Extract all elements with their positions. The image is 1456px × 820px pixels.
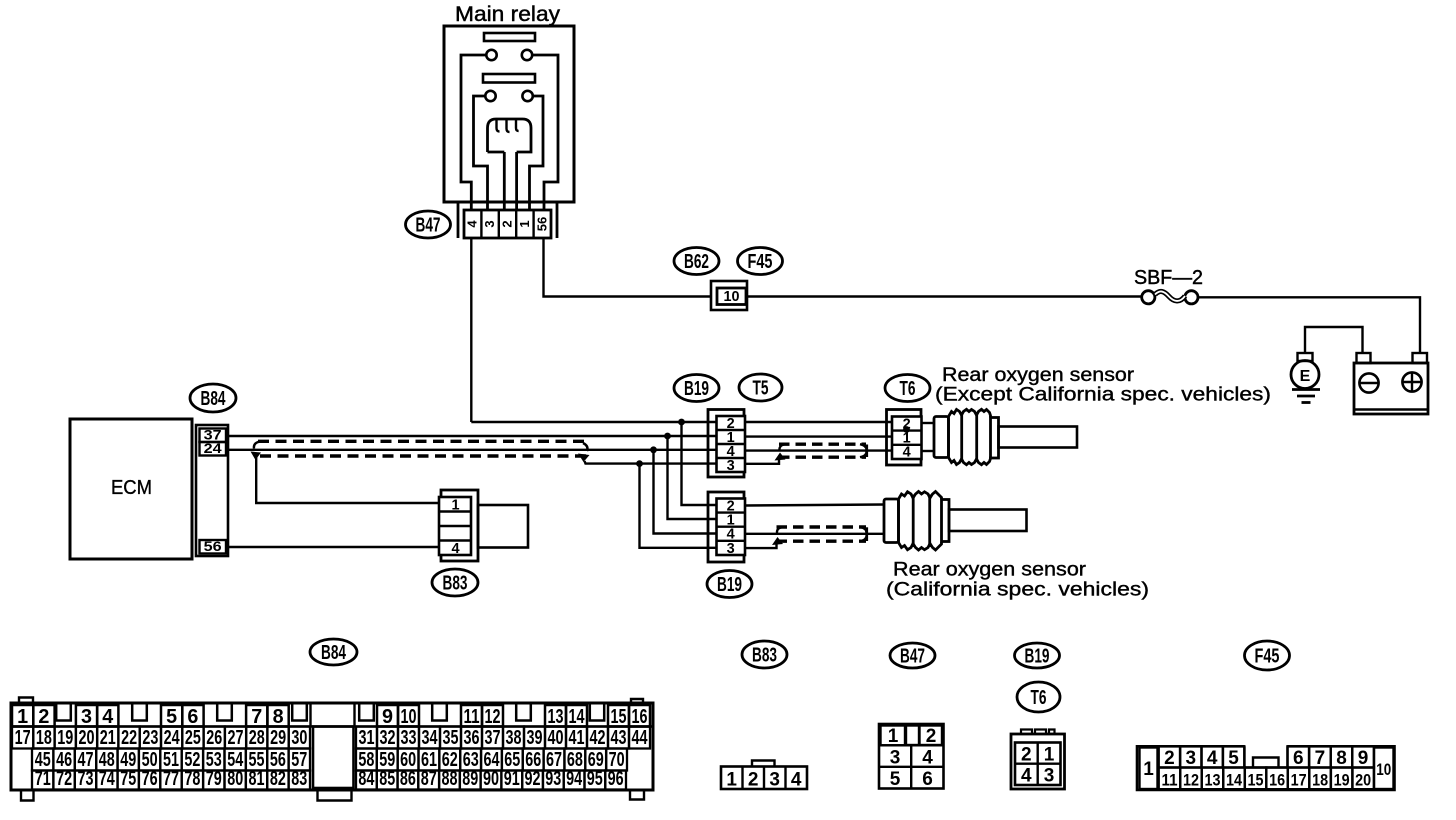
svg-text:11: 11 [1162,771,1178,790]
junction dots on four sensor lines [636,419,685,467]
svg-text:71: 71 [35,768,51,790]
svg-text:86: 86 [400,768,416,790]
svg-text:34: 34 [422,727,439,749]
svg-text:10: 10 [724,289,740,305]
svg-text:B19: B19 [1025,646,1050,668]
wire branch down to lower B19 pin 4 [654,450,718,534]
svg-text:E: E [1300,368,1311,385]
svg-text:B83: B83 [443,573,468,595]
svg-text:82: 82 [270,768,286,790]
svg-text:9: 9 [382,705,393,728]
wire fuse 10 to SBF-2 [747,295,1142,297]
svg-text:87: 87 [421,768,437,790]
svg-text:73: 73 [78,768,94,790]
svg-text:3: 3 [81,705,92,728]
svg-text:88: 88 [442,768,458,790]
svg-text:2: 2 [38,705,49,728]
svg-text:39: 39 [527,727,543,749]
relay Main relay outline [444,26,574,202]
connector B47 face view 1-6 [879,724,944,790]
svg-text:13: 13 [1205,771,1221,790]
svg-text:4: 4 [1021,766,1032,787]
svg-text:15: 15 [1248,771,1264,790]
svg-text:4: 4 [1207,748,1218,769]
wire lower B19 pin 4 to CA sensor (shielded) [745,533,884,535]
relay contact terminal circles lower [485,91,533,101]
svg-text:23: 23 [142,727,158,749]
svg-text:14: 14 [1226,771,1242,790]
svg-text:SBF—2: SBF—2 [1134,267,1203,289]
svg-text:74: 74 [99,768,116,790]
svg-text:14: 14 [569,705,585,728]
svg-text:89: 89 [462,768,478,790]
svg-text:94: 94 [566,768,583,790]
ground terminal E [1291,353,1319,389]
connector B47 under relay (terminal strip) [464,210,551,238]
svg-text:4: 4 [791,770,802,791]
svg-text:38: 38 [506,727,522,749]
shield around ECM pin 24 wire (dashed) [251,441,590,462]
svg-text:3: 3 [1186,748,1197,769]
wire relay line right to connector B19/T5 pin 2 [471,421,717,423]
wire relay terminal 5 down then right to fuse 10 [544,238,712,297]
svg-text:36: 36 [464,727,480,749]
svg-text:78: 78 [184,768,200,790]
connector label oval T6 (upper) [885,375,930,402]
rear oxygen sensor (except California) cable cylinder [999,427,1078,448]
svg-text:6: 6 [922,769,933,790]
svg-text:22: 22 [121,727,137,749]
wire B19/T5 pin 2 to T6 pin 2 [745,421,892,423]
svg-text:2: 2 [926,726,937,747]
svg-text:5: 5 [166,705,177,728]
svg-text:40: 40 [548,727,564,749]
svg-text:3: 3 [482,220,497,227]
connector label oval B19 (upper) [674,375,719,402]
svg-text:16: 16 [1269,771,1285,790]
svg-text:6: 6 [187,705,198,728]
battery [1354,353,1428,414]
svg-text:83: 83 [291,768,307,790]
label "Main relay" [455,3,561,26]
svg-text:33: 33 [401,727,417,749]
svg-text:4: 4 [465,220,480,228]
svg-text:72: 72 [56,768,72,790]
connector B83 body [478,505,528,548]
svg-text:4: 4 [922,748,933,769]
connector label oval B84 (at ECM) [190,384,236,412]
label SBF-2 [1134,267,1203,289]
svg-text:1: 1 [517,220,532,227]
svg-text:(Except California spec. vehic: (Except California spec. vehicles) [935,384,1271,406]
wire ECM pin 24 to connector B19/T5 pin 4 (shielded) [228,449,717,451]
svg-text:43: 43 [611,727,627,749]
svg-text:3: 3 [890,748,901,769]
svg-text:18: 18 [36,727,52,749]
svg-text:B62: B62 [684,251,709,273]
svg-text:16: 16 [632,705,648,728]
svg-text:79: 79 [206,768,222,790]
svg-text:29: 29 [270,727,286,749]
svg-text:44: 44 [632,727,649,749]
wire ECM pin 56 to B83 pin 4 [228,546,439,548]
rear oxygen sensor (except California) corrugated boot [949,409,991,464]
svg-text:19: 19 [1334,771,1350,790]
svg-text:1: 1 [1143,759,1154,780]
rear oxygen sensor (except California) end ring [991,418,999,459]
relay contact bar upper [484,33,535,41]
svg-text:8: 8 [273,705,284,728]
svg-text:4: 4 [102,705,114,728]
connector label oval B62 [674,248,719,275]
wire lower B19 pin 2 to CA sensor [745,505,884,506]
rear oxygen sensor (California) cable cylinder [949,510,1027,532]
wire branch down to lower B19 pin 2 [682,422,718,505]
svg-text:1: 1 [888,726,899,747]
svg-text:18: 18 [1312,771,1328,790]
relay coil stem to terminal 3 [504,152,516,211]
svg-text:90: 90 [483,768,499,790]
fusible link SBF-2 symbol [1142,291,1198,304]
svg-text:24: 24 [164,727,181,749]
connector B19 lower outline and pins 2-1-4-3 [708,492,745,562]
wire B19/T5 pin 4 to T6 pin 4 (shielded) [745,449,892,451]
connector B83 face view 1-4 [721,761,807,791]
wire lower B19 pin 3 to shield [745,544,777,549]
svg-text:26: 26 [206,727,222,749]
svg-text:ECM: ECM [111,477,152,499]
svg-text:91: 91 [504,768,520,790]
svg-text:17: 17 [1291,771,1307,790]
svg-text:7: 7 [1315,748,1326,769]
svg-text:20: 20 [79,727,95,749]
svg-text:75: 75 [120,768,136,790]
svg-text:12: 12 [1183,771,1199,790]
relay internal wire from upper-left contact to terminal 1 [461,55,486,211]
svg-text:11: 11 [464,705,480,728]
svg-text:F45: F45 [1255,646,1280,668]
svg-text:5: 5 [890,769,901,790]
svg-text:13: 13 [548,705,564,728]
connector B83 (shield drain) outline [439,490,478,561]
svg-text:1: 1 [17,705,28,728]
relay contact terminal circles upper [486,50,532,60]
connector label oval F45 [738,248,783,275]
wire B19/T5 pin 3 to shield of T5-T6 lead [745,459,779,464]
svg-text:F45: F45 [748,251,773,273]
svg-text:6: 6 [1293,748,1304,769]
svg-text:(California spec. vehicles): (California spec. vehicles) [886,579,1149,601]
wire B19/T5 pin 1 to T6 pin 1 [745,435,892,437]
svg-text:56: 56 [534,217,549,231]
svg-text:B84: B84 [321,642,347,664]
connector label oval T5 [739,374,782,401]
svg-text:20: 20 [1355,771,1371,790]
wire branch down to lower B19 pin 1 [668,436,718,519]
svg-text:12: 12 [485,705,501,728]
svg-text:3: 3 [769,770,780,791]
svg-text:31: 31 [359,727,375,749]
svg-text:9: 9 [1358,748,1369,769]
svg-text:5: 5 [1228,748,1239,769]
connector F45 face view 1-20 [1137,746,1395,790]
connector B19/T5 upper outline and pins 2-1-4-3 [708,410,745,478]
svg-text:B19: B19 [717,574,742,596]
svg-text:80: 80 [227,768,243,790]
svg-text:2: 2 [500,220,515,227]
svg-text:27: 27 [228,727,244,749]
svg-text:B47: B47 [900,646,925,668]
connector label oval B19 (bottom) [1015,643,1060,668]
wire ground E to battery negative [1305,327,1363,353]
svg-text:35: 35 [443,727,459,749]
svg-text:10: 10 [1376,760,1391,779]
connector label oval B47 [406,211,451,238]
svg-text:84: 84 [358,768,375,790]
svg-text:B47: B47 [416,215,441,237]
connector T6 outline and pins 2-1-4 [887,410,922,466]
svg-text:92: 92 [525,768,541,790]
label Rear oxygen sensor (lower) [886,559,1149,601]
svg-text:4: 4 [903,445,911,461]
connector label oval B83 (bottom) [742,641,787,668]
svg-text:7: 7 [251,705,262,728]
svg-text:96: 96 [608,768,624,790]
svg-text:T6: T6 [900,378,916,400]
wire relay terminal 1 down to oxygen-sensor signal line [470,238,472,422]
svg-text:37: 37 [485,727,501,749]
connector label oval F45 (bottom) [1245,641,1290,670]
rear oxygen sensor (California) end ring [942,500,950,542]
connector label oval B19 (lower) [707,571,752,598]
relay internal wire from lower-right contact to terminal 4 [530,96,544,211]
connector label oval B84 (bottom) [310,639,357,665]
svg-text:1: 1 [1044,745,1055,766]
svg-text:42: 42 [590,727,606,749]
svg-text:93: 93 [545,768,561,790]
svg-text:56: 56 [204,538,222,554]
fuse No.10 (box in box) [711,281,747,310]
svg-text:2: 2 [748,770,759,791]
connector B84 at ECM (pin strip) [196,425,228,556]
svg-text:2: 2 [1164,748,1175,769]
svg-text:3: 3 [727,458,735,474]
wire SBF-2 to battery positive [1198,297,1420,353]
wire shield right end to connector B19/T5 pin 3 [585,461,718,464]
connector B84 face view 96-pin grid [11,698,653,801]
svg-text:1: 1 [451,498,459,514]
svg-text:17: 17 [15,727,31,749]
rear oxygen sensor (except California) collar [934,417,949,458]
svg-text:28: 28 [249,727,265,749]
svg-text:30: 30 [291,727,307,749]
svg-text:T5: T5 [753,378,769,400]
connector label oval T6 (bottom) [1017,682,1060,712]
svg-text:32: 32 [380,727,396,749]
wire ECM pin 37 to connector B19/T5 pin 1 [226,435,717,437]
connector label oval B83 (mid) [432,569,478,596]
relay internal wire from lower-left contact to terminal 2 [474,96,488,211]
shield around T5-T6 pin4 wire (dashed) [775,444,867,460]
svg-text:8: 8 [1336,748,1347,769]
svg-text:3: 3 [727,541,735,557]
svg-text:3: 3 [1044,766,1055,787]
svg-text:77: 77 [163,768,179,790]
shield around lower pin4 wire (dashed) [772,527,867,545]
svg-text:T6: T6 [1031,687,1047,709]
ground symbol under E [1292,390,1320,403]
wire branch down to lower B19 pin 3 [640,464,718,548]
svg-text:1: 1 [726,770,737,791]
relay contact bar lower [483,74,535,83]
svg-text:B19: B19 [684,378,709,400]
relay internal wire from upper-right contact to terminal 5 [532,55,558,211]
connector label oval B47 (bottom) [890,643,935,668]
svg-text:95: 95 [587,768,603,790]
svg-text:41: 41 [569,727,585,749]
svg-text:24: 24 [204,440,222,456]
relay case side stubs [458,202,557,238]
rear oxygen sensor (California) collar [884,499,899,543]
rear oxygen sensor (California) corrugated boot [899,492,942,551]
svg-text:15: 15 [611,705,627,728]
svg-text:25: 25 [185,727,201,749]
svg-text:85: 85 [379,768,395,790]
label Rear oxygen sensor (upper) [935,364,1271,406]
connector B19/T6 face view 2-1-4-3 [1011,730,1065,790]
svg-text:B83: B83 [752,645,777,667]
svg-text:2: 2 [1021,745,1032,766]
wire shield drain down to connector B83 pin 1 [256,457,441,503]
svg-text:10: 10 [401,705,417,728]
wires T6 to sensor collar [922,423,935,451]
svg-text:Rear oxygen sensor: Rear oxygen sensor [893,559,1087,581]
relay coil body [488,119,532,152]
svg-text:76: 76 [142,768,158,790]
svg-text:B84: B84 [201,388,227,410]
svg-text:21: 21 [100,727,116,749]
svg-text:Main relay: Main relay [455,3,561,26]
svg-text:19: 19 [57,727,73,749]
svg-text:81: 81 [249,768,265,790]
svg-text:4: 4 [451,541,459,557]
ECM box [70,419,192,559]
